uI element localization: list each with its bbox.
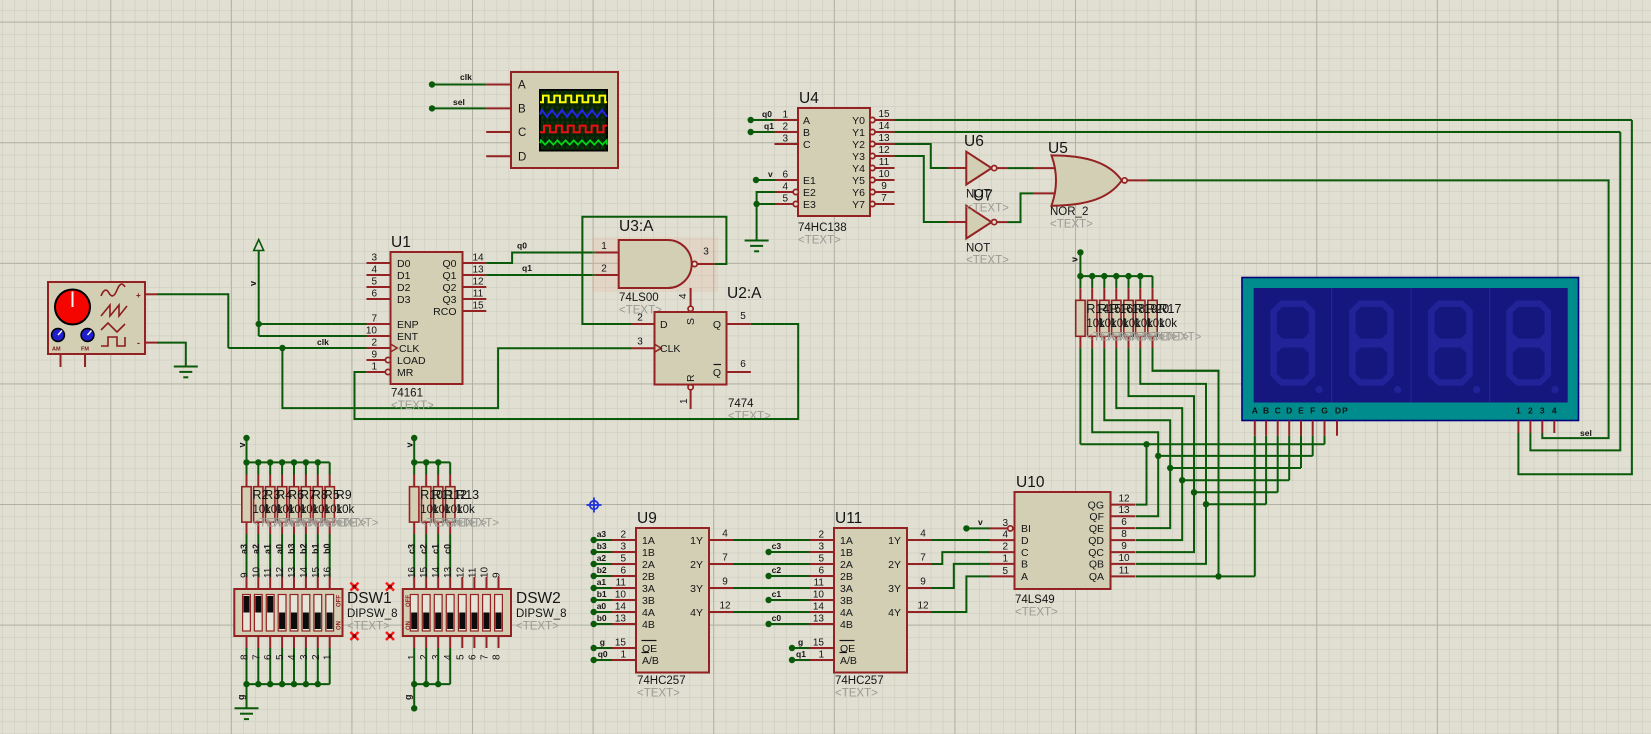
wire QA row [1136,575,1255,577]
wire Y0 to digit1 [895,119,1632,121]
wire clk to U1 CLK [228,347,366,349]
U1 74161 body [391,252,463,384]
DSW2 bottom pin 5 [461,636,463,648]
svg-text:2B: 2B [840,571,853,583]
U10 pin 12 QG [1111,504,1136,506]
svg-text:14: 14 [431,566,442,578]
svg-text:3: 3 [431,654,442,660]
svg-text:11: 11 [473,289,484,300]
U2 pin 3 CLK [631,347,655,349]
oscilloscope trace C red [540,126,607,133]
wire g bus (DSW2) [414,683,450,685]
U3 output bubble [692,261,697,266]
DSW2 bottom pin 3 [437,636,439,648]
svg-text:74161: 74161 [391,388,423,400]
svg-text:11: 11 [616,578,627,589]
wire display E column [1300,436,1302,468]
U9 A overline [642,652,650,654]
DSW1 switch 8 toggle down [327,613,333,630]
svg-text:<TEXT>: <TEXT> [637,688,680,700]
wire resistor R19 top [1128,276,1130,288]
resistor R17 body [1148,300,1157,336]
resistor R9 body [325,487,334,522]
wire col5 staircase [1129,348,1195,492]
svg-text:15: 15 [878,109,890,120]
DSW2 switch 1 slot [410,595,418,632]
U7 output bubble [992,220,997,225]
U1 pin 5 D2 [367,286,391,288]
svg-text:15: 15 [615,638,627,649]
svg-text:14: 14 [615,602,627,613]
junction v rail [1137,273,1143,279]
resistor R10 body [410,487,419,522]
svg-text:14: 14 [472,253,484,264]
svg-text:D2: D2 [397,282,411,294]
svg-text:10k: 10k [456,504,475,516]
U2 S bubble [688,306,693,311]
svg-text:b0: b0 [322,543,332,554]
display pin digit1 [1517,421,1519,434]
wire clk to oscilloscope A [432,84,486,86]
svg-text:c1: c1 [772,589,782,599]
svg-text:b1: b1 [310,543,320,554]
wire col4 staircase [1116,348,1182,480]
svg-text:3A: 3A [840,583,853,595]
svg-text:D: D [1286,406,1292,416]
svg-text:1: 1 [782,110,788,121]
signal generator body [48,282,145,354]
wire col7 staircase [1153,348,1219,504]
svg-text:10k: 10k [1159,318,1178,330]
v wire end dot (E1) [753,177,759,183]
U4 pin 12 Y3 [875,155,895,157]
svg-text:R17: R17 [1159,302,1182,316]
svg-text:Y6: Y6 [852,187,865,199]
svg-text:12: 12 [472,277,484,288]
resistor R2 top lead [246,475,248,487]
U11 pin 6 2B [810,575,834,577]
U2 pin 6 Q-bar [727,371,751,373]
wire a1 to U9 3A [594,587,612,589]
junction g bus (DSW1) [267,681,273,687]
resistor R6 top lead [281,475,283,487]
U2 7474 body [655,312,727,385]
svg-text:a1: a1 [597,577,607,587]
DIP switch top pin 3 [269,577,271,589]
resistor R15 bottom lead [1091,336,1093,348]
display pin G [1324,421,1326,436]
svg-text:16: 16 [323,566,334,578]
wire U9 Y to U11 A row y=612 [733,611,810,613]
U11 pin 15 OE [810,647,834,649]
junction E2/E3 [753,201,759,207]
sig-gen + pin [145,293,157,295]
svg-text:5: 5 [740,311,746,322]
DSW2 bottom pin 8 [498,636,500,648]
wire resistor R14 top [1079,276,1081,288]
U4 pin 11 Y4 [875,167,895,169]
svg-text:1: 1 [323,654,334,660]
svg-text:B: B [1021,559,1028,571]
wire resistor R4 to DIP switch [269,534,271,577]
ground (sig-gen) [174,367,198,378]
U1 pin 12 Q2 [463,286,487,288]
resistor R12 bottom lead [437,522,439,534]
display pin E [1300,421,1302,436]
wire U11 3Y to U10 B [931,564,990,588]
svg-text:A: A [518,80,526,92]
svg-text:<TEXT>: <TEXT> [336,518,379,530]
a2 wire end dot [591,561,597,567]
wire resistor R9 top [329,462,331,474]
resistor R17 top lead [1152,288,1154,300]
svg-text:10: 10 [813,590,825,601]
svg-text:DIPSW_8: DIPSW_8 [347,608,398,620]
resistor R11 top lead [425,475,427,487]
svg-text:NOT: NOT [966,243,990,255]
DSW2 switch 6 slot [471,595,479,632]
display pin digit2 [1529,421,1531,434]
DSW2 DIPSW_8 body [403,589,511,636]
wire U10 QD riser [1136,480,1183,540]
oscilloscope screen [540,90,607,151]
U4 pin 2 B [775,131,799,133]
U3:A NAND gate body [619,240,692,288]
svg-text:1: 1 [601,241,607,252]
wire DSW2 pin 4 to g bus [449,648,451,684]
svg-text:DSW2: DSW2 [516,590,561,607]
resistor R18 bottom lead [1115,336,1117,348]
wire resistor R3 top [257,462,259,474]
junction v rail (bank A) [303,459,309,465]
svg-text:P: P [1342,406,1348,416]
svg-text:QB: QB [1089,559,1104,571]
svg-text:A/B: A/B [642,655,659,667]
display pin B [1265,421,1267,436]
wire Y0 digit1 loop [1518,120,1632,474]
DSW2 switch 5 slot [458,595,466,632]
svg-text:1: 1 [818,650,824,661]
svg-text:D0: D0 [397,258,411,270]
sel wire end dot [429,105,435,111]
U3 pin 1 [596,252,619,254]
svg-text:12: 12 [275,566,286,578]
svg-text:<TEXT>: <TEXT> [835,688,878,700]
svg-text:11: 11 [879,157,890,168]
DSW1 switch 2 toggle up [255,596,261,613]
DSW1 switch 1 slot [243,595,251,632]
resistor R20 top lead [1139,288,1141,300]
svg-text:9: 9 [920,577,926,588]
DSW2 switch 8 slot [495,595,503,632]
svg-text:<TEXT>: <TEXT> [966,255,1009,267]
svg-text:1A: 1A [840,535,853,547]
resistor R5 body [313,487,322,522]
svg-text:12: 12 [917,601,929,612]
c2 wire end dot [765,573,771,579]
wire U9 Y to U11 A row y=588 [733,587,810,589]
svg-text:sel: sel [453,97,465,107]
resistor R9 top lead [329,475,331,487]
svg-text:1Y: 1Y [888,535,901,547]
U4 pin 4 E2 [775,191,793,193]
svg-text:U6: U6 [964,133,984,150]
junction g bus (DSW2) [411,681,417,687]
U9 pin 7 2Y [709,563,733,565]
svg-text:9: 9 [240,572,251,578]
U11 pin 12 4Y [907,611,931,613]
svg-text:7: 7 [881,193,887,204]
svg-text:74LS00: 74LS00 [619,292,659,304]
junction v rail (bank A) [315,459,321,465]
U9 pin 2 1A [612,539,636,541]
wire lattice row QB [1206,503,1266,505]
DSW1 DIPSW_8 body [234,589,342,636]
wire v to ENP [259,323,367,325]
U10 pin 8 QD [1111,539,1136,541]
svg-text:CLK: CLK [399,343,419,355]
7seg digit 2 [1349,301,1394,386]
wire v to ENT [259,335,367,337]
DSW1 bottom pin 3 [305,636,307,648]
g terminal dot (DSW2) [411,705,417,711]
svg-text:RCO: RCO [433,306,456,318]
a0 wire end dot [591,609,597,615]
svg-text:clk: clk [460,72,472,82]
svg-text:A: A [803,115,810,127]
wire U4 E2 to ground [757,192,775,241]
U9 pin 14 4A [612,611,636,613]
clk wire end dot [429,81,435,87]
U10 pin 11 QA [1111,575,1136,577]
svg-text:6: 6 [467,654,478,660]
svg-text:E3: E3 [803,199,816,211]
DSW1 switch 6 slot [302,595,310,632]
U10 BI bubble [1008,526,1013,531]
selection marker [386,632,394,640]
svg-text:3: 3 [818,542,824,553]
b1 wire end dot [591,597,597,603]
U5 input pin 1 [1033,167,1056,169]
resistor R19 top lead [1128,288,1130,300]
DSW1 switch 3 toggle up [267,596,273,613]
junction v rail (bank A) [279,459,285,465]
DSW1 switch 8 slot [326,595,334,632]
wire DSW1 pin 1 to g bus [329,648,331,684]
wire q1 to U4 B [751,131,775,133]
wire lattice row QC [1194,491,1278,493]
U2 pin 2 D [631,323,655,325]
wire lattice row QD [1182,479,1289,481]
U10 pin 2 C [990,551,1015,553]
svg-text:3: 3 [1540,406,1545,416]
U9 pin 15 OE [612,647,636,649]
svg-text:OFF: OFF [406,595,412,607]
svg-text:11: 11 [263,567,274,578]
svg-text:14: 14 [813,602,825,613]
svg-text:Y5: Y5 [852,175,865,187]
wire U11 2Y to U10 C [931,552,990,564]
wire col7 to QA row [1153,348,1219,576]
resistor R17 bottom lead [1152,336,1154,348]
svg-text:4B: 4B [642,619,655,631]
signal generator FM knob [81,329,94,342]
svg-text:<TEXT>: <TEXT> [728,411,771,423]
wire display F column [1312,436,1314,456]
wire b3 to U9 1B [594,551,612,553]
resistor R6 body [277,487,286,522]
svg-text:12: 12 [1118,494,1130,505]
U5 output pin [1127,179,1147,181]
wire resistor R12 top [437,462,439,474]
wire resistor R20 top [1139,276,1141,288]
svg-text:U4: U4 [799,90,819,107]
svg-text:a2: a2 [597,553,607,563]
wire resistor R6 to DIP switch [281,534,283,577]
resistor R3 body [254,487,263,522]
v terminal dot (bank C) [411,435,417,441]
wire q0 Q0 to NAND pin1 [486,253,596,264]
svg-text:BI: BI [1021,523,1031,535]
svg-text:4: 4 [722,529,728,540]
v terminal dot (bank A) [243,435,249,441]
DSW2 top pin (n/c) [473,577,475,589]
DSW2 switch 7 toggle down [484,613,490,630]
wire U11 1Y to U10 D [931,539,990,541]
wire U10 QB riser [1136,504,1207,564]
display pin C [1277,421,1279,436]
selection marker [386,583,394,591]
wire resistor R2 to DIP switch [246,534,248,577]
wire v rail (display bank) [1080,275,1152,277]
junction g bus (DSW1) [303,681,309,687]
svg-text:A: A [1021,571,1028,583]
wire resistor R18 top [1115,276,1117,288]
DSW2 bottom pin 4 [449,636,451,648]
svg-text:5: 5 [455,654,466,660]
wire c0 to U11 4B [769,623,810,625]
svg-text:<TEXT>: <TEXT> [391,400,434,412]
svg-text:v: v [248,281,258,286]
svg-text:2: 2 [371,338,377,349]
resistor R2 bottom lead [246,522,248,534]
svg-text:E: E [1298,406,1304,416]
DSW2 bottom pin 2 [425,636,427,648]
svg-text:3Y: 3Y [690,583,703,595]
DSW2 switch 3 toggle down [435,613,441,630]
svg-text:Y3: Y3 [852,151,865,163]
signal generator frequency knob [55,290,90,325]
U6 output bubble [992,166,997,171]
wire sig-gen + to clk net [157,294,228,348]
DSW1 bottom pin 2 [317,636,319,648]
U1 pin 9 LOAD [367,359,386,361]
c1 wire end dot [765,597,771,603]
q0 wire end dot (U9) [591,657,597,663]
resistor R4 bottom lead [269,522,271,534]
svg-text:8: 8 [1121,529,1127,540]
wire lattice row QF [1158,455,1313,457]
DSW1 switch 7 toggle down [315,613,321,630]
svg-text:c3: c3 [772,541,782,551]
oscilloscope pin A [486,84,511,86]
U1 MR bubble [385,369,390,374]
resistor R7 body [289,487,298,522]
svg-text:6: 6 [1121,517,1127,528]
svg-text:6: 6 [782,170,788,181]
wire resistor R12 to DIP switch [437,534,439,577]
svg-text:q0: q0 [517,241,527,251]
svg-text:2Y: 2Y [888,559,901,571]
svg-text:2: 2 [637,313,643,324]
junction g bus (DSW2) [423,681,429,687]
wire U9 Y to U11 A row y=564 [733,563,810,565]
svg-text:8: 8 [492,654,503,660]
svg-text:11: 11 [814,578,825,589]
7seg digit 3 [1428,301,1473,386]
svg-text:2: 2 [419,654,430,660]
junction QB [1203,501,1209,507]
resistor R19 body [1124,300,1133,336]
svg-text:G: G [1321,406,1328,416]
resistor R20 body [1136,300,1145,336]
svg-text:2: 2 [818,530,824,541]
svg-text:c0: c0 [772,613,782,623]
sig-gen - pin [145,342,157,344]
wire sel to oscilloscope B [432,107,486,109]
svg-text:3: 3 [299,654,310,660]
DIP switch top pin 2 [425,577,427,589]
svg-text:2: 2 [782,122,788,133]
wire DSW1 pin 6 to g bus [269,648,271,684]
U10 pin 1 B [990,563,1015,565]
svg-text:Q: Q [713,367,721,379]
U10 pin 5 A [990,575,1015,577]
svg-text:3: 3 [620,542,626,553]
DSW2 switch 8 toggle down [496,613,502,630]
U1 pin 10 ENT [367,335,391,337]
wire U10 QC riser [1136,492,1195,552]
7seg digit 1 [1271,301,1316,386]
junction v rail (bank A) [243,459,249,465]
svg-text:U5: U5 [1048,140,1068,157]
svg-text:<TEXT>: <TEXT> [1050,219,1093,231]
resistor R4 body [266,487,275,522]
svg-text:4: 4 [1002,530,1008,541]
wire DSW1 pin 2 to g bus [317,648,319,684]
svg-text:v: v [768,169,773,179]
wire display G column [1324,436,1326,445]
DSW2 switch 3 slot [434,595,442,632]
wire U2 Q to U1 MR [355,324,799,419]
junction v rail [1113,273,1119,279]
wire g bus to ground [246,684,248,708]
wire U11 4Y to U10 A [931,576,990,612]
wire Y2 to U6 [895,144,949,168]
wire v stem (display bank) [1079,252,1081,276]
svg-text:<TEXT>: <TEXT> [798,235,841,247]
U4 pin 14 Y1 [875,131,895,133]
svg-text:QF: QF [1089,511,1104,523]
svg-text:C: C [803,139,811,151]
wire resistor R7 top [293,462,295,474]
U6 NOT gate body [966,152,991,185]
U5 output bubble [1122,178,1127,183]
U9 74HC257 body [636,528,709,673]
U4 E3 bubble [793,201,798,206]
U6 output pin [997,167,1008,169]
svg-text:3: 3 [703,247,709,258]
